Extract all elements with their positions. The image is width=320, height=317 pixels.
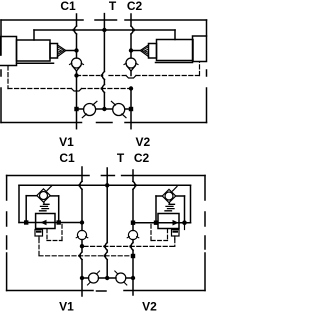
right piston bar (173, 231, 179, 233)
right cone hatch (142, 47, 148, 54)
manifold boundary left edge lower (0, 88, 2, 123)
left check loop riser 1 (25, 196, 27, 223)
right cartridge cap (193, 36, 207, 62)
boundary bottom left segment (7, 290, 93, 292)
pilot rail y=30 (34, 29, 175, 31)
boundary bottom center dash (97, 290, 107, 292)
svg-text:T: T (109, 0, 117, 13)
square junction C2 x orifice row (129, 107, 133, 111)
right check loop riser 2 (184, 196, 186, 223)
square junction pilot x C2 (131, 254, 135, 258)
wire C1 between rail hop and work line (81, 189, 83, 220)
junction dot C1 x row (80, 276, 84, 280)
left drain dashed U (47, 224, 62, 241)
left piston bar (36, 231, 42, 233)
ball check on C2 drop (127, 230, 139, 239)
manifold boundary right edge upper (206, 20, 208, 36)
port line C2 (bottom) (132, 170, 134, 181)
pilot rail (valve tops) y=185.3 (19, 184, 191, 186)
square junction C1 x orifice row (74, 107, 78, 111)
left cartridge body (17, 40, 51, 61)
port line C1 (top diagram) (76, 14, 78, 26)
left check loop riser 2 (58, 196, 60, 223)
right check loop riser 1 (155, 196, 157, 223)
port stub V1 (76, 111, 78, 129)
right check loop right line (176, 195, 185, 197)
wire C2 to lower pilot square (132, 250, 134, 256)
orifice circle left with diagonal ticks (82, 101, 97, 117)
right valve box (158, 214, 179, 229)
dash dip under C1 (lower pilot) (72, 89, 82, 92)
junction square C2 x work line (131, 221, 135, 225)
left pilot dashed across to C2 (39, 255, 133, 257)
left cartridge cone (58, 45, 66, 57)
T line between dashes (103, 80, 105, 85)
left piston box (35, 230, 43, 237)
left pilot dashed down (38, 239, 40, 256)
port line C2 continued (130, 34, 132, 58)
lower pilot dashed: left cap riser (7, 66, 9, 89)
svg-text:V1: V1 (59, 135, 74, 149)
boundary top edge right segment (122, 175, 205, 177)
boundary top edge left segment (7, 175, 89, 177)
orifice circle right (bottom) (115, 271, 127, 285)
svg-text:C1: C1 (59, 151, 75, 165)
rail riser left into cartridge (33, 30, 35, 40)
boundary right edge (solid-dash-solid) (204, 176, 206, 291)
T hops over both pilot dashes (105, 185, 107, 278)
port line C2 (top) (130, 14, 132, 26)
junction dot C1 x upper pilot dash (74, 73, 78, 77)
C2 hop over rail (133, 181, 135, 189)
svg-text:C2: C2 (127, 0, 143, 13)
left assembly frame left edge (18, 185, 20, 222)
wire cone apex to C1 (66, 50, 77, 52)
manifold boundary bottom center dash (97, 122, 113, 124)
svg-text:C2: C2 (134, 151, 150, 165)
right valve arrow (173, 220, 179, 226)
left check valve (diamond + ball) (37, 186, 52, 202)
left check loop top line (26, 195, 37, 197)
right cartridge under-line (156, 62, 193, 64)
right cartridge cone (140, 45, 148, 57)
port T tick (95, 19, 117, 21)
left cartridge nose (50, 44, 58, 59)
ball check on C1 drop (76, 230, 88, 239)
dash dip under C2 (upper pilot) (126, 76, 136, 79)
left cone hatch (58, 47, 64, 54)
left check loop right line (50, 195, 59, 197)
junction dot cone x C1 (74, 48, 78, 52)
wire ball to pilot dot (81, 240, 83, 247)
ball check valve on C1 branch (70, 58, 84, 71)
port stub V2 (bottom) (132, 278, 134, 295)
ball check valve on C2 branch (124, 58, 138, 71)
left piston pilot stem (38, 236, 40, 239)
left valve box (36, 214, 55, 229)
left spring (40, 204, 50, 211)
right assembly frame right edge (190, 185, 192, 222)
C2 hop over upper pilot dash (131, 240, 133, 251)
manifold boundary right edge dash below cap (206, 70, 208, 76)
right spring (165, 204, 175, 211)
junction dot C2 x lower pilot dash (129, 86, 133, 90)
right cartridge body (157, 40, 194, 61)
boundary left edge (solid-dash-solid) (6, 176, 8, 291)
right check valve (diamond + ball) (162, 187, 177, 203)
junction dot cone x C2 (129, 48, 133, 52)
junction dot right riser2 x work line with stub (182, 220, 187, 225)
junction dot T x rail (105, 183, 109, 187)
svg-text:V2: V2 (142, 300, 157, 314)
right pilot dashed across to C1 (84, 245, 175, 247)
square junction loop riser1 x work line (24, 220, 28, 224)
manifold boundary bottom edge right segment (125, 122, 207, 124)
left check to spring stub (43, 202, 45, 204)
manifold boundary left edge dash below cap (0, 70, 2, 76)
orifice row line (bottom) (82, 277, 133, 279)
upper pilot dashed line from C1 to right cap (77, 75, 200, 77)
svg-text:T: T (117, 151, 125, 165)
right check loop top line (156, 195, 162, 197)
wire cone apex to C2 (131, 50, 140, 52)
work line left (C1 side) (19, 222, 82, 224)
wire C2 from dash dot to orifice row (130, 89, 132, 110)
right piston pilot stem (174, 236, 176, 239)
boundary bottom right segment (124, 290, 205, 292)
manifold boundary bottom edge left segment (1, 122, 82, 124)
left cartridge cap (1, 37, 17, 66)
square junction loop riser2 x work line (57, 220, 61, 224)
wire C1 from dash dot to orifice row (76, 76, 78, 110)
wire C2 between rail hop and work line (132, 189, 134, 220)
svg-text:V2: V2 (135, 135, 150, 149)
T line to orifice row (103, 93, 105, 110)
orifice circle right with diagonal ticks (111, 101, 126, 117)
manifold boundary left edge upper (0, 20, 2, 55)
port stub V2 (130, 111, 132, 129)
junction dot T x rail (102, 28, 106, 32)
right drain dashed U (151, 224, 168, 241)
work line right (C2 side) (133, 222, 191, 224)
wire C2 hop over pilot rail (131, 26, 133, 34)
port T tick (bottom) (101, 175, 114, 177)
junction dot C1 x work line (80, 220, 84, 224)
hop apex blobs (scan artifacts at crossovers) (72, 29, 136, 258)
junction dot T x row (105, 276, 109, 280)
junction dot C2 x row (131, 276, 135, 280)
left cartridge under-line (17, 62, 54, 64)
svg-text:V1: V1 (59, 300, 74, 314)
right cartridge nose (149, 44, 157, 59)
port line T (103, 14, 105, 30)
wire C1 to orifice row (81, 260, 83, 278)
rail riser right into cartridge (174, 30, 176, 40)
wire C2 to orifice row (132, 256, 134, 278)
manifold boundary top edge (right segment with C2 tick) (125, 19, 207, 21)
orifice row line (77, 108, 132, 110)
svg-text:C1: C1 (60, 0, 76, 13)
C1 hop over lower pilot dash (80, 246, 82, 259)
port line C1 continued to cone junction (76, 34, 78, 58)
wire C2 workline dot to ball (132, 225, 134, 231)
lower pilot dashed line from left cap to C2 (8, 88, 131, 90)
right piston box (172, 230, 180, 237)
T hop over upper pilot dash (102, 30, 104, 80)
junction dot pilot x C1 (80, 244, 84, 248)
wire below right ball check (130, 71, 132, 76)
square junction right riser1 x work line (154, 221, 158, 225)
right check to spring stub (169, 203, 171, 205)
port line C1 (bottom) (81, 167, 83, 181)
wire C1 workline dot to ball (81, 225, 83, 231)
right pilot dashed down (174, 239, 176, 246)
manifold boundary top edge (left segment to C1 tick) (1, 19, 83, 21)
manifold boundary right edge lower (206, 88, 208, 123)
junction dot T x orifice row (102, 107, 106, 111)
right pilot dashed riser under cap (199, 62, 201, 76)
wire C1 hop over pilot rail (74, 26, 76, 34)
wire below left ball check (76, 71, 78, 76)
C1 hop over rail (80, 181, 82, 189)
left valve arrow (40, 220, 46, 226)
T hop over lower pilot dash (102, 85, 104, 93)
port line T (bottom) (106, 168, 108, 185)
orifice circle left (bottom) (88, 271, 100, 285)
port stub V1 (bottom) (81, 278, 83, 296)
